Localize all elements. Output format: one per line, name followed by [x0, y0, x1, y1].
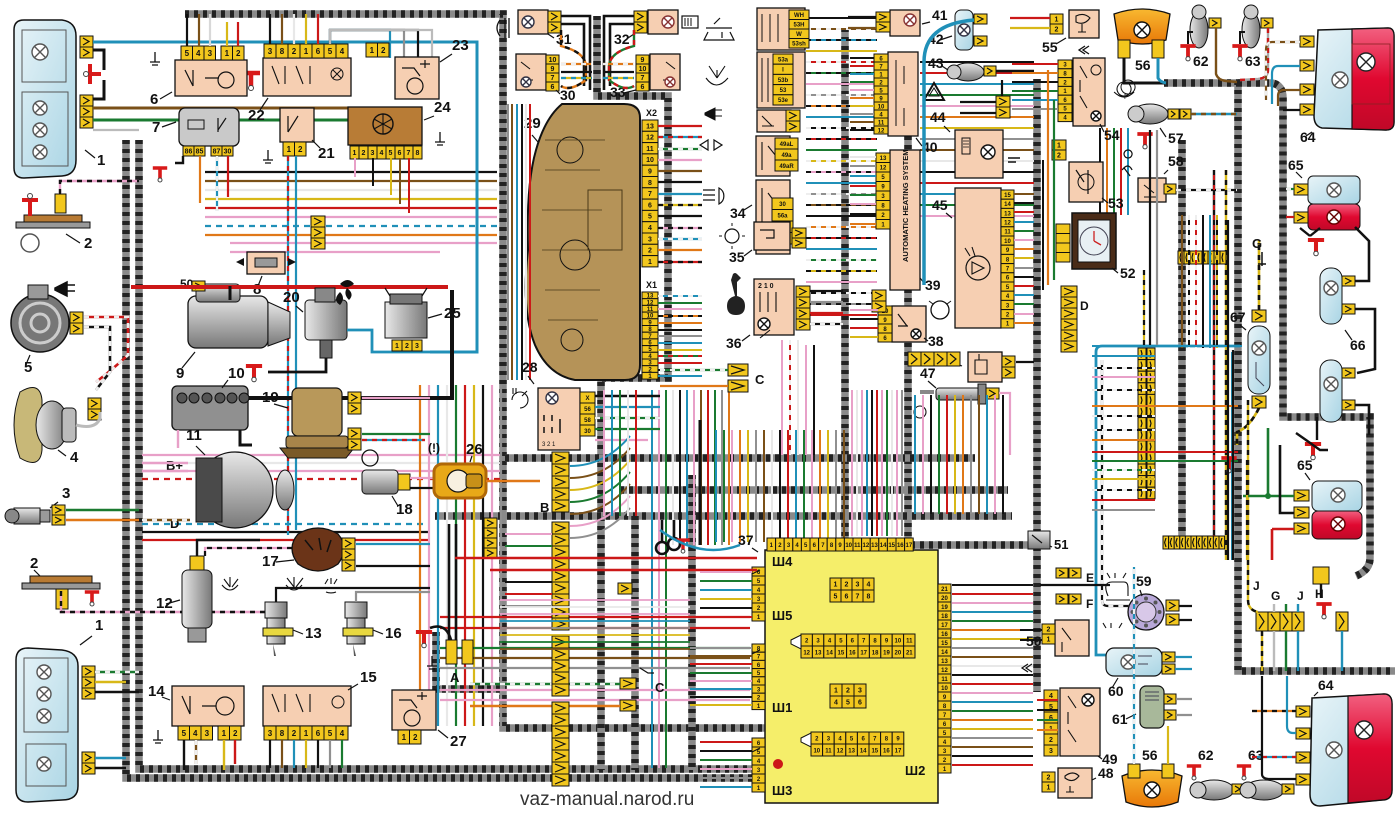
svg-text:Ш2: Ш2 — [905, 763, 925, 778]
svg-text:21: 21 — [318, 145, 335, 162]
connectors E F — [1056, 568, 1068, 578]
harness vertical x908 — [904, 100, 912, 540]
wire bundle left-center pink — [142, 454, 500, 456]
svg-text:6: 6 — [1049, 715, 1053, 722]
svg-text:6: 6 — [398, 150, 402, 157]
svg-text:2: 2 — [292, 47, 297, 56]
wire brown from headlamp — [93, 108, 375, 128]
svg-text:11: 11 — [1004, 230, 1011, 236]
svg-text:8: 8 — [867, 594, 871, 601]
svg-text:4: 4 — [867, 582, 871, 589]
seatbelt icon — [1122, 150, 1132, 176]
svg-text:X: X — [585, 396, 589, 402]
horn icon — [55, 282, 75, 296]
svg-text:H: H — [1315, 587, 1324, 601]
wire green sensor3 — [66, 509, 139, 512]
svg-text:53sh: 53sh — [792, 42, 806, 48]
svg-text:4: 4 — [834, 700, 838, 707]
svg-text:30: 30 — [779, 202, 786, 208]
svg-text:11: 11 — [646, 146, 654, 153]
svg-text:10: 10 — [639, 66, 647, 73]
svg-text:13: 13 — [815, 650, 822, 656]
svg-text:10: 10 — [813, 748, 820, 754]
svg-text:12: 12 — [837, 748, 844, 754]
wires below 54 — [1099, 128, 1101, 215]
side repeater 56 top — [1114, 9, 1170, 44]
inner table 2 — [791, 635, 801, 649]
svg-text:87: 87 — [213, 149, 221, 156]
ECU controller block — [765, 550, 938, 803]
harness vertical x1192 — [1178, 140, 1186, 545]
svg-text:62: 62 — [1198, 747, 1214, 763]
ground top-left — [242, 73, 260, 86]
svg-text:1: 1 — [304, 729, 309, 738]
wire 20 black — [268, 358, 326, 372]
teal route from 60 up — [1096, 346, 1240, 655]
inner table 3 — [830, 684, 842, 696]
svg-text:31: 31 — [556, 31, 572, 47]
svg-text:2: 2 — [846, 688, 850, 695]
key icon — [727, 273, 745, 315]
svg-text:12: 12 — [941, 668, 948, 674]
wire fan into ECU top — [699, 430, 701, 542]
svg-text:WH: WH — [794, 13, 804, 19]
svg-text:10: 10 — [941, 686, 948, 692]
svg-text:3: 3 — [62, 485, 70, 502]
svg-text:12: 12 — [803, 650, 810, 656]
injector 16 — [345, 602, 367, 618]
svg-text:1: 1 — [395, 343, 399, 350]
svg-text:1: 1 — [1047, 785, 1051, 792]
headlamp block 1 bottom — [16, 648, 78, 802]
svg-text:X2: X2 — [646, 108, 657, 118]
svg-text:37: 37 — [738, 532, 754, 548]
horn part — [757, 110, 791, 132]
svg-text:53a: 53a — [778, 57, 789, 63]
sensor 26 — [434, 464, 486, 498]
vertical bundle x915-1005 — [914, 395, 916, 514]
inner table 4 — [801, 733, 811, 747]
svg-text:4: 4 — [196, 49, 201, 58]
svg-text:(!): (!) — [428, 441, 440, 455]
heater controller 39 — [890, 150, 920, 290]
connector C — [620, 678, 636, 689]
svg-text:41: 41 — [932, 7, 948, 23]
svg-text:J: J — [1297, 589, 1304, 603]
lamp 65 top — [1308, 176, 1360, 204]
svg-text:7: 7 — [648, 191, 652, 198]
svg-text:3 2 1: 3 2 1 — [542, 442, 556, 448]
svg-text:1: 1 — [222, 729, 227, 738]
svg-text:86: 86 — [185, 149, 193, 156]
svg-text:15: 15 — [838, 650, 845, 656]
svg-text:15: 15 — [941, 641, 948, 647]
wires right of ECU to x1035 — [952, 584, 1033, 586]
lamp 42 — [955, 10, 973, 50]
svg-text:13: 13 — [646, 123, 654, 130]
svg-text:63: 63 — [1245, 53, 1261, 69]
harness inner right vertical — [1238, 83, 1370, 576]
svg-text:56: 56 — [584, 407, 591, 413]
svg-text:2: 2 — [30, 555, 38, 572]
connector stack x313 — [311, 216, 325, 227]
harness horizontal right of ECU — [848, 541, 1035, 549]
wires 28 — [595, 395, 660, 398]
svg-text:6: 6 — [858, 700, 862, 707]
svg-text:J: J — [1253, 579, 1260, 593]
svg-text:51: 51 — [1054, 537, 1068, 552]
svg-text:AUTOMATIC HEATING SYSTEM: AUTOMATIC HEATING SYSTEM — [901, 150, 910, 263]
svg-text:5: 5 — [846, 700, 850, 707]
lamp 66 b — [1320, 360, 1342, 422]
svg-text:11: 11 — [878, 120, 885, 126]
svg-text:Ш1: Ш1 — [772, 700, 792, 715]
svg-text:17: 17 — [941, 623, 948, 629]
svg-text:25: 25 — [444, 305, 461, 322]
wires from stack left — [505, 533, 552, 535]
harness top-left frame — [185, 14, 765, 728]
lamp 65 bottom — [1312, 481, 1362, 511]
sensor 2 bottom — [30, 576, 92, 583]
wires bottom headlamp — [95, 671, 139, 673]
svg-text:10: 10 — [895, 638, 902, 644]
connector row y536 — [1163, 536, 1169, 549]
svg-text:Ш5: Ш5 — [772, 608, 792, 623]
wires 65 bottom — [1243, 495, 1294, 498]
dimmer 35 — [754, 222, 790, 250]
extra verticals x600-640 — [603, 390, 605, 516]
connector stack x488 y515 — [484, 518, 497, 528]
svg-text:vaz-manual.narod.ru: vaz-manual.narod.ru — [520, 789, 694, 810]
svg-text:8: 8 — [280, 47, 285, 56]
wire black headlamp loop — [93, 50, 104, 99]
svg-text:D: D — [1080, 299, 1089, 313]
svg-text:45: 45 — [932, 197, 948, 213]
wire orange sensor3 — [66, 519, 139, 522]
switch 55 — [1069, 10, 1099, 38]
svg-text:1: 1 — [304, 47, 309, 56]
svg-text:58: 58 — [1168, 153, 1184, 169]
svg-text:5: 5 — [185, 49, 190, 58]
svg-text:14: 14 — [1004, 202, 1011, 208]
svg-text:13: 13 — [1004, 211, 1011, 217]
lamp 63 bottom — [1244, 780, 1284, 800]
svg-text:9: 9 — [641, 57, 645, 64]
connector stack column x552 — [552, 452, 569, 464]
wire red 50 — [131, 285, 448, 289]
svg-text:2: 2 — [1049, 737, 1053, 744]
svg-text:21: 21 — [941, 587, 948, 593]
harness right big frame — [1164, 83, 1395, 671]
svg-text:1: 1 — [353, 150, 357, 157]
svg-text:49aL: 49aL — [780, 142, 794, 148]
switch 28 — [538, 388, 580, 450]
svg-text:14: 14 — [826, 650, 833, 656]
svg-text:13: 13 — [305, 625, 322, 642]
svg-text:6: 6 — [150, 91, 158, 108]
svg-text:1: 1 — [1047, 637, 1051, 644]
black verticals centre-right — [699, 420, 702, 545]
svg-text:C: C — [755, 372, 765, 387]
svg-text:11: 11 — [906, 638, 913, 644]
hazard icon — [924, 83, 944, 100]
svg-text:10: 10 — [878, 104, 885, 110]
svg-text:1: 1 — [1057, 143, 1061, 150]
harness vertical x430 bottom left — [436, 632, 505, 689]
svg-text:24: 24 — [434, 99, 451, 116]
svg-text:9: 9 — [648, 169, 652, 176]
svg-text:1: 1 — [834, 688, 838, 695]
svg-text:1: 1 — [648, 259, 652, 266]
svg-text:1: 1 — [402, 733, 407, 742]
horn 5 — [11, 294, 69, 352]
sensor 47 — [936, 388, 980, 400]
icons left of 34 — [704, 18, 734, 40]
svg-text:11: 11 — [825, 748, 832, 754]
svg-text:3: 3 — [208, 49, 213, 58]
svg-text:19: 19 — [941, 605, 948, 611]
svg-text:8: 8 — [280, 729, 285, 738]
svg-text:7: 7 — [407, 150, 411, 157]
svg-text:12: 12 — [1004, 221, 1011, 227]
harness vertical x1037 — [1033, 79, 1041, 692]
light switch part — [756, 180, 790, 254]
alternator 11 — [197, 452, 273, 528]
wires fan from harness to stacks — [570, 436, 630, 466]
svg-text:49aR: 49aR — [779, 164, 794, 170]
svg-text:23: 23 — [452, 37, 469, 54]
relay 50 right — [1055, 620, 1089, 656]
svg-text:5: 5 — [389, 150, 393, 157]
svg-text:65: 65 — [1288, 157, 1304, 173]
heater fan 25 — [385, 302, 427, 338]
svg-text:21: 21 — [906, 650, 913, 656]
svg-text:34: 34 — [730, 205, 746, 221]
svg-text:2 1 0: 2 1 0 — [758, 283, 774, 290]
svg-text:18: 18 — [872, 650, 879, 656]
harness horizontal y458 — [505, 454, 975, 462]
red long wires bottom — [455, 557, 757, 560]
svg-text:15: 15 — [1004, 193, 1011, 199]
svg-text:16: 16 — [897, 543, 904, 549]
lamp 67 — [1248, 326, 1270, 394]
relay 7 — [179, 108, 239, 146]
headlamp block 1 top-left — [14, 20, 76, 178]
drops under 24 — [354, 158, 356, 177]
svg-text:G: G — [1252, 236, 1262, 251]
instrument cluster 45 — [955, 188, 1001, 328]
wires 49 up — [1020, 630, 1042, 640]
vertical wires through row 251 — [1181, 215, 1183, 348]
sensor 27 — [392, 690, 436, 730]
svg-text:35: 35 — [729, 249, 745, 265]
washer pump 12 — [182, 570, 212, 628]
lamp 43 — [952, 63, 984, 81]
relay 53 — [1069, 162, 1103, 202]
svg-text:5: 5 — [328, 729, 333, 738]
relay 14 — [172, 686, 244, 726]
svg-text:20: 20 — [283, 289, 300, 306]
ignition switch 36 — [754, 279, 794, 335]
sensor 2 — [24, 215, 82, 222]
wires right of 29 X1 — [658, 295, 702, 297]
svg-text:G: G — [1271, 589, 1280, 603]
svg-text:2: 2 — [1047, 775, 1051, 782]
wires in G area — [1261, 631, 1263, 671]
svg-text:6: 6 — [845, 594, 849, 601]
wires 40 to harness — [850, 57, 874, 59]
steering switch 34 stack — [757, 8, 805, 50]
svg-text:9: 9 — [551, 66, 555, 73]
svg-text:2: 2 — [1047, 627, 1051, 634]
svg-text:12: 12 — [863, 543, 870, 549]
icons washer/temp — [222, 577, 238, 590]
svg-text:65: 65 — [1297, 457, 1313, 473]
svg-text:13: 13 — [871, 543, 878, 549]
harness vertical x692 — [688, 475, 696, 770]
verticals beside x1037 harness — [1047, 70, 1049, 285]
svg-text:56: 56 — [1142, 747, 1158, 763]
svg-text:1: 1 — [834, 582, 838, 589]
inner table 1 — [830, 578, 841, 590]
svg-text:30: 30 — [560, 87, 576, 103]
svg-text:5: 5 — [834, 594, 838, 601]
svg-text:58: 58 — [584, 418, 591, 424]
clock 52 — [1072, 213, 1116, 269]
svg-text:47: 47 — [920, 365, 936, 381]
svg-text:14: 14 — [880, 543, 887, 549]
conn stack above 44 — [996, 96, 1010, 107]
svg-text:14: 14 — [941, 650, 948, 656]
svg-text:16: 16 — [385, 625, 402, 642]
connector row y352 — [908, 352, 921, 366]
wire black starter-battery — [245, 290, 452, 398]
switch 61 — [1140, 686, 1164, 728]
ignition coil 17 — [292, 528, 344, 571]
svg-text:3: 3 — [371, 150, 375, 157]
svg-text:12: 12 — [646, 135, 654, 142]
svg-text:16: 16 — [941, 632, 948, 638]
svg-text:Ш4: Ш4 — [772, 554, 793, 569]
cigarette lighter 44 — [955, 130, 1003, 178]
svg-text:32: 32 — [614, 31, 630, 47]
switch 30 — [516, 54, 546, 90]
svg-text:11: 11 — [854, 543, 861, 549]
wires 66 — [1355, 227, 1369, 281]
wires steering column to 40 — [806, 17, 877, 19]
svg-text:64: 64 — [1318, 677, 1334, 693]
harness horizontal y516 — [435, 512, 1012, 520]
switch 15 — [263, 686, 351, 726]
wires 12 — [197, 540, 260, 556]
svg-text:18: 18 — [396, 501, 413, 518]
svg-text:56a: 56a — [777, 214, 788, 220]
svg-text:C: C — [655, 680, 665, 695]
svg-text:7: 7 — [641, 75, 645, 82]
svg-text:8: 8 — [416, 150, 420, 157]
wires 64 top — [1266, 42, 1300, 100]
svg-text:48: 48 — [1098, 765, 1114, 781]
component 19 — [292, 388, 342, 436]
svg-text:57: 57 — [1168, 130, 1184, 146]
wires 6 pins up — [186, 14, 188, 46]
svg-text:X1: X1 — [646, 280, 657, 290]
wires between 30-33 — [561, 16, 590, 90]
svg-text:P: P — [1124, 94, 1129, 101]
svg-text:1: 1 — [225, 49, 230, 58]
seat icon — [1106, 573, 1130, 600]
wires 39 to harness — [850, 156, 876, 158]
svg-text:13: 13 — [848, 748, 855, 754]
small conn pair mid — [618, 583, 632, 594]
svg-text:26: 26 — [466, 441, 483, 458]
battery 10 — [172, 386, 248, 430]
sensor 18 — [362, 470, 398, 494]
svg-text:2: 2 — [1055, 27, 1059, 34]
svg-text:2: 2 — [381, 46, 386, 55]
svg-text:5: 5 — [24, 359, 32, 376]
lamp 66 a — [1320, 268, 1342, 324]
heated seat switch 59 — [1128, 594, 1164, 630]
svg-text:2: 2 — [1057, 153, 1061, 160]
svg-text:1: 1 — [95, 617, 103, 634]
svg-text:17: 17 — [895, 748, 902, 754]
harness vertical x635 — [631, 516, 639, 770]
vertical wires right area — [1225, 170, 1227, 560]
svg-text:6: 6 — [316, 47, 321, 56]
svg-text:17: 17 — [906, 543, 913, 549]
svg-text:6: 6 — [648, 202, 652, 209]
svg-text:13: 13 — [880, 156, 887, 162]
svg-text:7: 7 — [152, 119, 160, 136]
black hook wires — [656, 520, 668, 554]
svg-text:2: 2 — [413, 733, 418, 742]
svg-text:27: 27 — [450, 733, 467, 750]
svg-text:2: 2 — [292, 729, 297, 738]
wires right of 29 X2 — [658, 125, 702, 127]
svg-text:2: 2 — [405, 343, 409, 350]
injector 13 — [265, 602, 287, 618]
heater 32 — [648, 10, 678, 34]
svg-text:38: 38 — [928, 333, 944, 349]
svg-text:12: 12 — [878, 128, 885, 134]
svg-text:3: 3 — [205, 729, 210, 738]
svg-text:16: 16 — [883, 748, 890, 754]
svg-text:10: 10 — [228, 365, 245, 382]
long verticals right — [1149, 130, 1151, 345]
connector long column x1138 — [1138, 348, 1146, 360]
wires 21 down — [287, 156, 289, 535]
harness horizontal y490 — [620, 486, 1008, 494]
svg-text:52: 52 — [1120, 265, 1136, 281]
svg-text:18: 18 — [941, 614, 948, 620]
harness frame left outer — [126, 140, 906, 778]
wire green from headlamp — [93, 120, 370, 132]
svg-text:64: 64 — [1300, 129, 1316, 145]
teal wire from 42 — [924, 20, 974, 285]
sensor 3 — [14, 508, 40, 524]
wire yellow-black 67 — [1258, 240, 1261, 310]
svg-text:44: 44 — [930, 109, 946, 125]
hazard switch 40 — [888, 52, 918, 136]
svg-text:62: 62 — [1193, 53, 1209, 69]
svg-text:4: 4 — [193, 729, 198, 738]
svg-text:53e: 53e — [778, 98, 789, 104]
svg-text:3: 3 — [1049, 748, 1053, 755]
wire bundle left-center lower — [142, 523, 430, 525]
wire bundle below 29 — [651, 390, 653, 768]
svg-text:61: 61 — [1112, 711, 1128, 727]
